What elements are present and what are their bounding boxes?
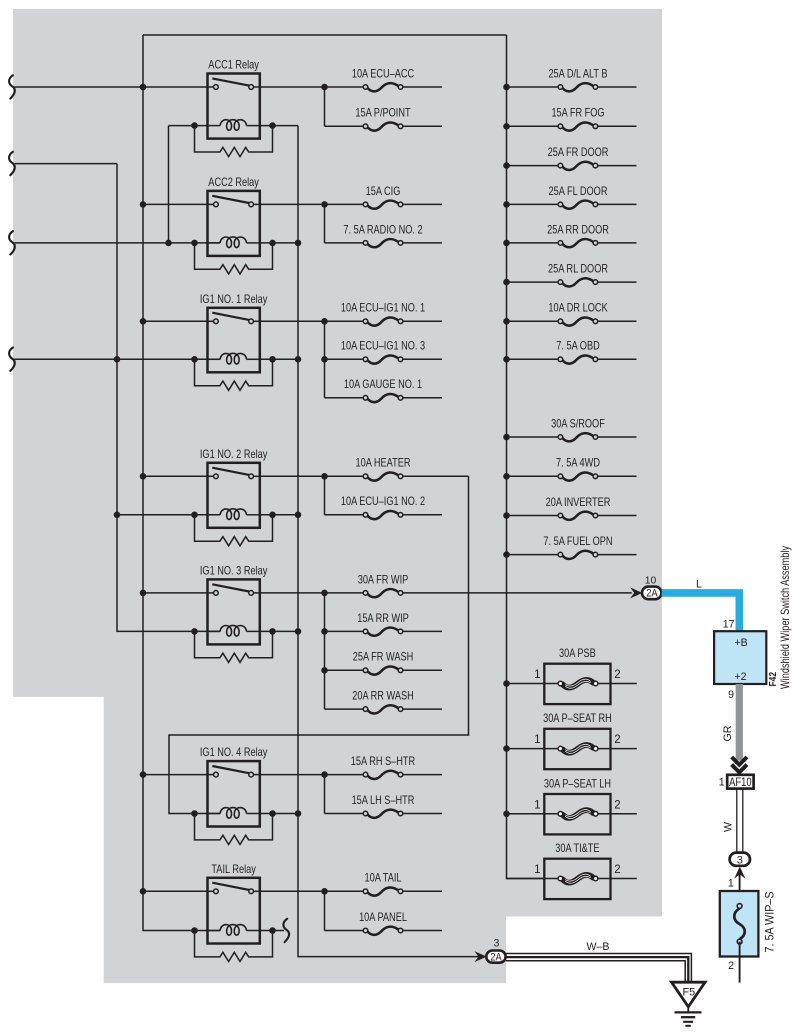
wire IG1 NO.2 coil row left xyxy=(117,514,220,516)
wire ACC1 coil row left to link xyxy=(169,125,208,127)
wire fuse 25A RL DOOR output xyxy=(598,281,637,283)
wire fusible link 30A P–SEAT LH pin 2 output xyxy=(598,813,637,815)
svg-text:ACC2 Relay: ACC2 Relay xyxy=(208,177,259,189)
svg-text:15A P/POINT: 15A P/POINT xyxy=(355,108,411,120)
wire bus B feed to IG1 NO.2 switch xyxy=(143,475,208,477)
fuse 7.5A WIP-S box xyxy=(720,891,759,957)
wire feed to fuse 25A D/L ALT B xyxy=(507,86,559,88)
relay ACC1 switch contacts xyxy=(212,78,249,85)
wire IG1 NO.1 switch output row xyxy=(260,320,325,322)
junction dots relay IG1NO3 coil row xyxy=(191,628,198,635)
wire fuse 30A S/ROOF output xyxy=(598,436,637,438)
wire top feed bus xyxy=(143,34,507,36)
svg-text:F5: F5 xyxy=(682,986,695,998)
wire IG1 NO.2 coil row right xyxy=(260,514,298,516)
svg-text:IG1 NO. 2 Relay: IG1 NO. 2 Relay xyxy=(200,449,268,461)
svg-text:30A FR WIP: 30A FR WIP xyxy=(358,574,409,586)
svg-text:17: 17 xyxy=(723,618,735,630)
relay IG1NO4 switch contacts xyxy=(212,766,249,773)
relay IG1NO3 switch contacts xyxy=(212,584,249,591)
svg-text:10A TAIL: 10A TAIL xyxy=(365,873,402,885)
relay ACC1 parallel resistor xyxy=(195,126,273,157)
fuse 25A D/L ALT B xyxy=(558,83,598,91)
wire IG1 NO.3 coil row right xyxy=(260,630,298,632)
wire feed to fuse 7. 5A FUEL OPN xyxy=(507,554,559,556)
svg-text:1: 1 xyxy=(719,777,725,789)
svg-text:10A ECU–ACC: 10A ECU–ACC xyxy=(352,69,415,81)
relay box IG1NO3 xyxy=(208,579,260,644)
svg-text:10A HEATER: 10A HEATER xyxy=(355,458,410,470)
wire fuse 15A RR WIP output xyxy=(403,630,442,632)
relay IG1 NO.1 xyxy=(191,294,276,390)
wire feed to fuse 7. 5A 4WD xyxy=(507,475,559,477)
svg-text:3: 3 xyxy=(737,854,743,866)
svg-text:IG1 NO. 3 Relay: IG1 NO. 3 Relay xyxy=(200,566,268,578)
relay TAIL parallel resistor xyxy=(195,931,273,962)
svg-text:15A RR WIP: 15A RR WIP xyxy=(357,613,409,625)
relay TAIL coil xyxy=(208,930,221,932)
svg-text:7. 5A WIP–S: 7. 5A WIP–S xyxy=(764,891,776,952)
off-page squiggle 3 xyxy=(9,231,15,254)
wire fuse 7. 5A OBD output xyxy=(598,358,637,360)
wire feed to fusible link 30A P–SEAT RH pin 1 xyxy=(507,748,559,750)
fuse 15A CIG xyxy=(363,201,403,209)
fuse 20A INVERTER xyxy=(558,512,598,520)
svg-text:25A FR DOOR: 25A FR DOOR xyxy=(548,147,609,159)
wire L (blue) to F42 +B xyxy=(662,593,740,632)
fuse 30A S/ROOF xyxy=(558,433,598,441)
svg-text:10A ECU–IG1 NO. 2: 10A ECU–IG1 NO. 2 xyxy=(341,496,425,508)
relay box IG1NO2 xyxy=(208,463,260,528)
wire feed to fusible link 30A PSB pin 1 xyxy=(507,683,559,685)
wire fusible link 30A PSB pin 2 output xyxy=(598,683,637,685)
wire ACC1-ACC2 coil link xyxy=(168,126,170,243)
connector oval 2A (upper) xyxy=(642,587,662,600)
relay IG1NO1 coil xyxy=(208,358,221,360)
svg-text:15A CIG: 15A CIG xyxy=(366,186,401,198)
off-page squiggle 4 xyxy=(9,348,15,371)
wire below WIP-S xyxy=(739,942,741,983)
wire IG1 NO.3 switch output row xyxy=(260,592,325,594)
wire mid branch bus xyxy=(324,593,326,709)
fuse 10A GAUGE NO. 1 xyxy=(363,394,403,402)
wire mid branch bus xyxy=(324,891,326,930)
relay IG1 NO.3 xyxy=(191,566,276,663)
wire fuse 25A FR DOOR output xyxy=(598,165,637,167)
svg-text:7. 5A RADIO NO. 2: 7. 5A RADIO NO. 2 xyxy=(343,224,422,236)
arrow up into splice 3 xyxy=(734,867,745,879)
wire fuse 10A PANEL output xyxy=(403,930,442,932)
wire left bus A (coil feed) xyxy=(117,164,220,632)
wire mid branch bus xyxy=(324,775,326,814)
junction dots relay ACC1 coil row xyxy=(191,122,198,129)
fusible link 30A P–SEAT RH xyxy=(544,729,610,769)
relay IG1NO1 parallel resistor xyxy=(195,359,273,390)
svg-text:1: 1 xyxy=(728,877,734,889)
relay IG1NO1 switch contacts xyxy=(212,313,249,320)
junctions right bus xyxy=(503,84,510,91)
wire fuse 15A CIG output xyxy=(403,203,442,205)
wire W (white, outlined) AF10 to splice 3 xyxy=(736,789,738,853)
fuse 10A TAIL xyxy=(363,887,403,895)
wire coil return bus xyxy=(298,126,486,957)
junctions bus B switch rows xyxy=(140,84,147,91)
svg-text:7. 5A FUEL OPN: 7. 5A FUEL OPN xyxy=(543,536,612,548)
gray panel: power source block background xyxy=(13,9,662,983)
off-page squiggle TAIL coil xyxy=(283,919,289,942)
off-page input wire to bus A xyxy=(15,163,118,165)
wire feed to fuse 15A FR FOG xyxy=(507,125,559,127)
wire feed to fuse 25A FR DOOR xyxy=(507,165,559,167)
fuse 7. 5A OBD xyxy=(558,355,598,363)
relay ACC2 parallel resistor xyxy=(195,243,273,274)
wire bus B feed to IG1 NO.1 switch xyxy=(143,320,208,322)
svg-text:25A FR WASH: 25A FR WASH xyxy=(353,652,413,664)
svg-text:15A RH S–HTR: 15A RH S–HTR xyxy=(351,756,416,768)
svg-text:2A: 2A xyxy=(646,588,658,600)
wire fuse 7. 5A FUEL OPN output xyxy=(598,554,637,556)
wire bus B feed to IG1 NO.3 switch xyxy=(143,592,208,594)
relay ACC2 coil xyxy=(208,242,221,244)
svg-text:7. 5A 4WD: 7. 5A 4WD xyxy=(556,458,600,470)
wire fuse 15A RH S–HTR output xyxy=(403,774,442,776)
wire feed to fuse 10A TAIL xyxy=(325,890,364,892)
F42 switch assembly box xyxy=(714,631,766,684)
wire feed to fuse 25A RL DOOR xyxy=(507,281,559,283)
wire feed to fuse 15A RR WIP xyxy=(325,630,364,632)
wire feed to fuse 15A RH S–HTR xyxy=(325,774,364,776)
relay box ACC1 xyxy=(208,74,260,139)
fuse 25A FR WASH xyxy=(363,666,403,674)
svg-text:1: 1 xyxy=(534,734,540,746)
wire fuse 25A D/L ALT B output xyxy=(598,86,637,88)
svg-text:25A RR DOOR: 25A RR DOOR xyxy=(547,224,609,236)
svg-text:IG1 NO. 1 Relay: IG1 NO. 1 Relay xyxy=(200,294,268,306)
wire fuse 10A ECU–ACC output xyxy=(403,86,442,88)
fuse 15A P/POINT xyxy=(363,122,403,130)
wire feed to fuse 10A ECU–IG1 NO. 2 xyxy=(325,514,364,516)
wire bus B feed to IG1 NO.4 switch xyxy=(143,774,208,776)
fusible link 30A TI&TE xyxy=(544,859,610,899)
wire feed to fuse 25A FL DOOR xyxy=(507,203,559,205)
wire mid branch bus xyxy=(324,321,326,398)
relay IG1NO2 switch contacts xyxy=(212,468,249,475)
fuse 7. 5A 4WD xyxy=(558,472,598,480)
wire feed to fuse 30A S/ROOF xyxy=(507,436,559,438)
relay IG1NO2 parallel resistor xyxy=(195,515,273,546)
connector arrow into 2A (pin 10) xyxy=(630,587,642,598)
wire feed to fuse 10A ECU–ACC xyxy=(325,86,364,88)
wire IG1 NO.4 switch output row xyxy=(260,774,325,776)
wire bus B feed to ACC2 switch xyxy=(143,203,208,205)
wire feed to fuse 10A GAUGE NO. 1 xyxy=(325,397,364,399)
svg-text:25A FL DOOR: 25A FL DOOR xyxy=(549,186,608,198)
fuse 10A ECU–IG1 NO. 2 xyxy=(363,511,403,519)
fuse 10A DR LOCK xyxy=(558,317,598,325)
wire ACC2 coil row right xyxy=(260,242,298,244)
splice oval 3 xyxy=(730,853,750,866)
wire fuse 15A FR FOG output xyxy=(598,125,637,127)
wire GR (gray) from F42 pin 9 xyxy=(736,684,743,761)
junction dots relay IG1NO1 coil row xyxy=(191,356,198,363)
svg-text:+2: +2 xyxy=(735,671,747,683)
wire fuse 15A P/POINT output xyxy=(403,125,442,127)
relay box IG1NO1 xyxy=(208,308,260,373)
wire fuse 30A FR WIP output xyxy=(403,592,632,594)
svg-text:10A GAUGE NO. 1: 10A GAUGE NO. 1 xyxy=(344,379,422,391)
relay IG1NO4 coil xyxy=(208,813,221,815)
wire TAIL coil row right stub xyxy=(260,930,284,932)
fuse 15A RH S–HTR xyxy=(363,771,403,779)
relay ACC2 switch contacts xyxy=(212,196,249,203)
wire ACC1 coil row right to coil bus xyxy=(260,125,298,127)
svg-text:30A S/ROOF: 30A S/ROOF xyxy=(551,419,605,431)
wire feed to fuse 25A FR WASH xyxy=(325,669,364,671)
svg-text:TAIL Relay: TAIL Relay xyxy=(211,864,256,876)
relay ACC1 coil xyxy=(208,125,221,127)
svg-text:+B: +B xyxy=(735,637,748,649)
GR wire double chevron arrow xyxy=(732,757,747,765)
connector arrow into 2A (pin 3, lower) xyxy=(474,951,486,962)
junction dots relay IG1NO2 coil row xyxy=(191,512,198,519)
svg-text:1: 1 xyxy=(534,864,540,876)
fuse 7. 5A RADIO NO. 2 xyxy=(363,239,403,247)
relay ACC2 xyxy=(191,177,276,274)
svg-text:9: 9 xyxy=(728,689,734,701)
wire IG1 NO.1 coil row right xyxy=(260,358,298,360)
fuse 25A FL DOOR xyxy=(558,201,598,209)
svg-text:30A P–SEAT RH: 30A P–SEAT RH xyxy=(543,713,612,725)
fuse WIP-S element xyxy=(734,908,745,939)
relay TAIL xyxy=(191,864,276,962)
svg-text:Windshield Wiper Switch Assemb: Windshield Wiper Switch Assembly xyxy=(780,545,792,689)
svg-text:20A RR WASH: 20A RR WASH xyxy=(352,691,413,703)
wire fuse 10A HEATER output xyxy=(403,475,469,477)
wire fuse 7. 5A RADIO NO. 2 output xyxy=(403,242,442,244)
wire ACC2 switch output row xyxy=(260,203,325,205)
ground triangle F5 xyxy=(672,982,706,1007)
svg-text:2: 2 xyxy=(728,960,734,972)
svg-text:25A D/L ALT B: 25A D/L ALT B xyxy=(548,69,607,81)
relay box TAIL xyxy=(208,878,260,944)
wire feed to fuse 10A ECU–IG1 NO. 3 xyxy=(325,358,364,360)
svg-text:7. 5A OBD: 7. 5A OBD xyxy=(556,341,600,353)
svg-text:20A INVERTER: 20A INVERTER xyxy=(546,497,611,509)
wire fuse 10A GAUGE NO. 1 output xyxy=(403,397,442,399)
fuse 10A ECU–IG1 NO. 1 xyxy=(363,317,403,325)
junction dots relay TAIL coil row xyxy=(191,927,198,934)
wire fuse 10A ECU–IG1 NO. 3 output xyxy=(403,358,442,360)
wire IG1 NO.4 coil row right xyxy=(260,813,298,815)
wire fusible link 30A P–SEAT RH pin 2 output xyxy=(598,748,637,750)
junction dots relay ACC2 coil row xyxy=(191,240,198,247)
fusible link 30A PSB xyxy=(544,664,610,704)
svg-text:ACC1 Relay: ACC1 Relay xyxy=(208,60,259,72)
connector AF10 xyxy=(727,775,753,789)
svg-text:GR: GR xyxy=(722,725,734,741)
wire feed to fuse 20A INVERTER xyxy=(507,515,559,517)
wire fuse 25A FR WASH output xyxy=(403,669,442,671)
wire feed to fuse 10A ECU–IG1 NO. 1 xyxy=(325,320,364,322)
wire feed to fuse 15A CIG xyxy=(325,203,364,205)
wire right bus (fuse feed) xyxy=(507,35,545,879)
wire feed to fuse 15A LH S–HTR xyxy=(325,813,364,815)
wire fuse 10A TAIL output xyxy=(403,890,442,892)
off-page input wire to ACC1 switch xyxy=(15,86,208,88)
connector oval 2A (lower) xyxy=(486,951,505,963)
svg-text:10A PANEL: 10A PANEL xyxy=(359,912,407,924)
wire fusible link 30A TI&TE pin 2 output xyxy=(598,878,637,880)
svg-text:W: W xyxy=(723,822,735,832)
relay box ACC2 xyxy=(208,191,260,256)
wire feed to fuse 10A HEATER xyxy=(325,475,364,477)
svg-text:30A P–SEAT LH: 30A P–SEAT LH xyxy=(544,778,611,790)
wire feed to fuse 25A RR DOOR xyxy=(507,242,559,244)
svg-text:AF10: AF10 xyxy=(729,776,752,789)
svg-text:10A ECU–IG1 NO. 1: 10A ECU–IG1 NO. 1 xyxy=(341,303,425,315)
wire mid branch bus xyxy=(324,476,326,515)
fuse 15A LH S–HTR xyxy=(363,810,403,818)
relay IG1 NO.4 xyxy=(191,747,276,844)
wire fuse 10A ECU–IG1 NO. 1 output xyxy=(403,320,442,322)
svg-text:2A: 2A xyxy=(490,952,502,964)
svg-text:2: 2 xyxy=(614,864,620,876)
off-page squiggle 1 xyxy=(9,75,15,98)
svg-text:30A TI&TE: 30A TI&TE xyxy=(555,843,599,855)
off-page input wire to IG1 NO.1 coil xyxy=(15,358,221,360)
wire fuse 20A INVERTER output xyxy=(598,515,637,517)
wire IG1 NO.4 coil feed from HEATER fuse xyxy=(169,476,469,813)
fusible link 30A P–SEAT LH xyxy=(544,794,610,834)
junctions bus A xyxy=(114,356,121,363)
wire fuse 10A ECU–IG1 NO. 2 output xyxy=(403,514,442,516)
wire fuse 20A RR WASH output xyxy=(403,708,442,710)
fuse 20A RR WASH xyxy=(363,705,403,713)
wire fuse 7. 5A 4WD output xyxy=(598,475,637,477)
wire feed to fuse 20A RR WASH xyxy=(325,708,364,710)
wire feed to fusible link 30A P–SEAT LH pin 1 xyxy=(507,813,559,815)
svg-text:2: 2 xyxy=(614,799,620,811)
ground symbol xyxy=(687,1007,689,1013)
svg-text:L: L xyxy=(696,578,702,590)
wire feed to fuse 7. 5A OBD xyxy=(507,358,559,360)
wire left bus B (switch feed) xyxy=(143,35,220,931)
svg-text:W–B: W–B xyxy=(587,941,610,953)
wire fuse 10A DR LOCK output xyxy=(598,320,637,322)
fuse 25A FR DOOR xyxy=(558,162,598,170)
svg-text:1: 1 xyxy=(534,799,540,811)
wire TAIL switch output row xyxy=(260,890,325,892)
wire mid branch bus xyxy=(324,87,326,126)
fuse 15A RR WIP xyxy=(363,628,403,636)
svg-text:25A RL DOOR: 25A RL DOOR xyxy=(548,264,608,276)
fuse 30A FR WIP xyxy=(363,589,403,597)
wire bus B feed to TAIL switch xyxy=(143,890,208,892)
svg-text:3: 3 xyxy=(494,938,500,950)
svg-text:15A LH S–HTR: 15A LH S–HTR xyxy=(352,795,415,807)
fuse 25A RR DOOR xyxy=(558,239,598,247)
wire feed to fuse 10A DR LOCK xyxy=(507,320,559,322)
svg-text:30A PSB: 30A PSB xyxy=(559,648,596,660)
wire fuse 25A RR DOOR output xyxy=(598,242,637,244)
wire feed to fuse 10A PANEL xyxy=(325,930,364,932)
svg-text:2: 2 xyxy=(614,734,620,746)
fuse 25A RL DOOR xyxy=(558,278,598,286)
junctions coil return bus xyxy=(295,240,302,247)
off-page squiggle 2 xyxy=(9,152,15,175)
fuse 10A HEATER xyxy=(363,472,403,480)
fuse 7. 5A FUEL OPN xyxy=(558,551,598,559)
wire ACC1 switch output row xyxy=(260,86,325,88)
wire feed to fuse 7. 5A RADIO NO. 2 xyxy=(325,242,364,244)
wire feed to fuse 30A FR WIP xyxy=(325,592,364,594)
wire W-B (white/black) to ground F5 xyxy=(506,954,692,982)
wire into WIP-S fuse xyxy=(739,874,741,906)
relay IG1 NO.2 xyxy=(191,449,276,546)
relay IG1NO2 coil xyxy=(208,514,221,516)
relay TAIL switch contacts xyxy=(212,883,249,890)
svg-text:10A ECU–IG1 NO. 3: 10A ECU–IG1 NO. 3 xyxy=(341,341,425,353)
relay box IG1NO4 xyxy=(208,761,260,826)
relay IG1NO3 parallel resistor xyxy=(195,631,273,662)
fuse 10A ECU–IG1 NO. 3 xyxy=(363,355,403,363)
svg-text:1: 1 xyxy=(534,669,540,681)
fuse 15A FR FOG xyxy=(558,122,598,130)
relay IG1NO3 coil xyxy=(208,630,221,632)
svg-text:10: 10 xyxy=(645,575,657,586)
wire fuse 15A LH S–HTR output xyxy=(403,813,442,815)
wire mid branch bus xyxy=(324,204,326,243)
wire feed to fuse 15A P/POINT xyxy=(325,125,364,127)
relay ACC1 xyxy=(191,60,276,157)
junction dots relay IG1NO4 coil row xyxy=(191,810,198,817)
svg-text:2: 2 xyxy=(614,669,620,681)
svg-text:15A FR FOG: 15A FR FOG xyxy=(551,108,604,120)
off-page input wire to ACC2 coil xyxy=(15,242,221,244)
svg-text:F42: F42 xyxy=(767,672,778,687)
wire feed to fusible link 30A TI&TE pin 1 xyxy=(507,878,559,880)
svg-text:IG1 NO. 4 Relay: IG1 NO. 4 Relay xyxy=(200,747,268,759)
fuse 10A ECU–ACC xyxy=(363,83,403,91)
fuse 10A PANEL xyxy=(363,927,403,935)
wire fuse 25A FL DOOR output xyxy=(598,203,637,205)
svg-text:10A DR LOCK: 10A DR LOCK xyxy=(548,303,607,315)
wire IG1 NO.2 switch output row xyxy=(260,475,325,477)
relay IG1NO4 parallel resistor xyxy=(195,814,273,845)
